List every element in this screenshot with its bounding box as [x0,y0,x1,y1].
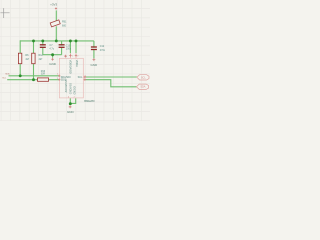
svg-text:VDDA: VDDA [75,60,78,67]
svg-text:C12: C12 [100,45,105,48]
svg-text:GND: GND [67,110,75,114]
svg-text:SCL: SCL [141,76,146,79]
svg-text:4k7: 4k7 [25,58,30,61]
svg-text:ADDR/CSB: ADDR/CSB [65,79,68,92]
svg-text:4k7: 4k7 [39,58,44,61]
svg-text:470n: 470n [100,49,106,52]
svg-text:100n: 100n [66,48,72,51]
svg-text:SCL: SCL [78,76,83,79]
svg-text:GNDIO: GNDIO [73,86,76,94]
svg-text:+3V3: +3V3 [50,2,57,6]
svg-text:GND: GND [49,62,57,66]
svg-text:33R: 33R [41,73,46,76]
svg-text:GND: GND [90,63,98,67]
svg-text:GND/VSS: GND/VSS [70,83,73,95]
svg-text:FB1: FB1 [62,20,67,23]
svg-text:SDA: SDA [5,73,10,76]
svg-text:VDDIO/VDD: VDDIO/VDD [68,60,71,74]
svg-text:SDA: SDA [140,86,145,89]
svg-text:4.7u: 4.7u [49,47,54,50]
svg-text:600: 600 [62,25,67,28]
svg-text:BME280: BME280 [84,99,95,103]
svg-text:R12: R12 [39,54,44,57]
